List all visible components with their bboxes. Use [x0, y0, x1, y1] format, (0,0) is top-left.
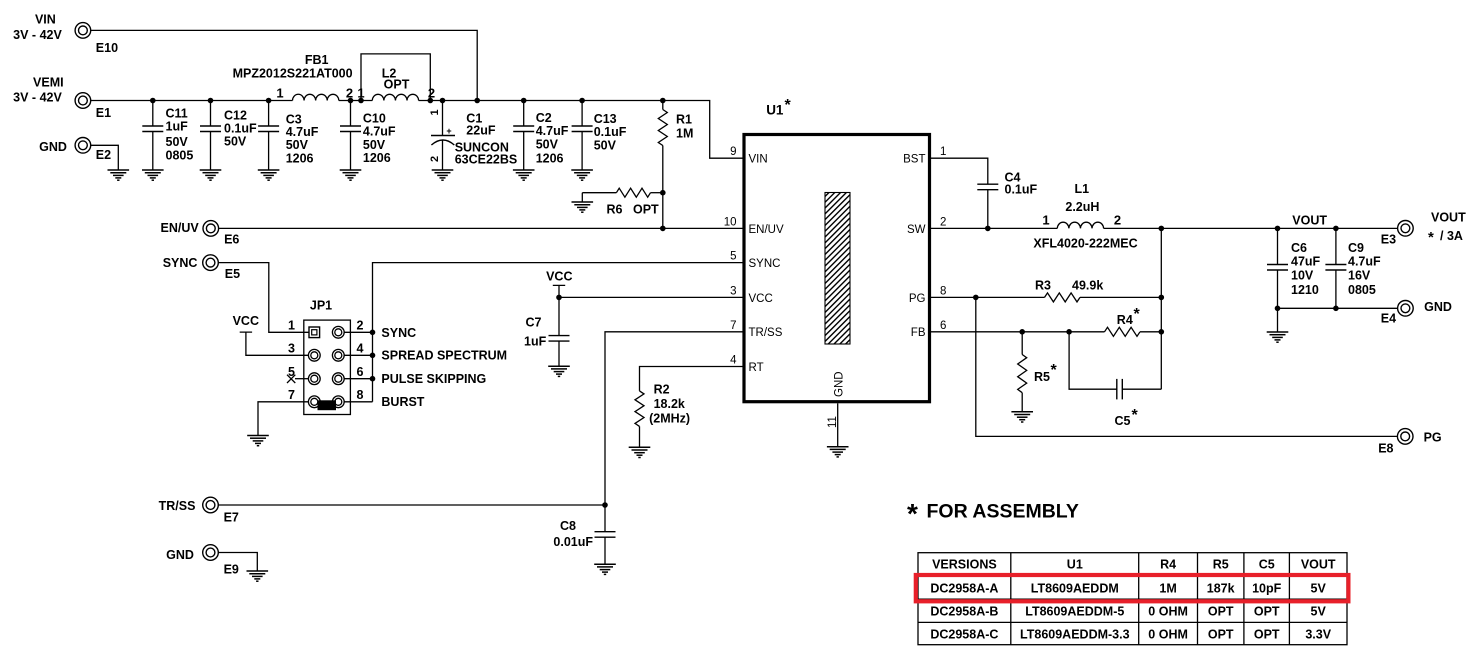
svg-text:C10: C10 — [363, 112, 386, 126]
svg-text:6: 6 — [357, 365, 364, 379]
wire PG to E8 — [976, 297, 1398, 436]
svg-text:7: 7 — [288, 388, 295, 402]
terminal E9 — [203, 545, 239, 577]
inductor L1 — [1033, 182, 1137, 250]
svg-text:BST: BST — [903, 154, 925, 166]
svg-text:FOR ASSEMBLY: FOR ASSEMBLY — [927, 501, 1079, 523]
wire PG row — [930, 296, 1162, 298]
svg-text:OPT: OPT — [1208, 605, 1234, 619]
node junction EN/UV at R1 — [660, 226, 666, 232]
svg-text:VOUT: VOUT — [1301, 558, 1336, 572]
svg-text:VOUT: VOUT — [1292, 214, 1327, 228]
svg-text:VIN: VIN — [749, 154, 768, 166]
svg-text:OPT: OPT — [384, 78, 410, 92]
svg-text:0.1uF: 0.1uF — [594, 125, 627, 139]
ground C8 — [594, 564, 616, 574]
svg-text:SPREAD SPECTRUM: SPREAD SPECTRUM — [381, 349, 507, 363]
pin 2 JP1 — [332, 326, 344, 338]
svg-text:SW: SW — [907, 224, 926, 236]
svg-text:1: 1 — [940, 146, 946, 158]
svg-text:TR/SS: TR/SS — [159, 499, 196, 513]
svg-text:4.7uF: 4.7uF — [286, 125, 319, 139]
svg-text:9: 9 — [730, 146, 736, 158]
svg-text:LT8609AEDDM-5: LT8609AEDDM-5 — [1025, 605, 1124, 619]
svg-text:4: 4 — [730, 355, 737, 367]
table assembly versions — [918, 553, 1347, 645]
svg-text:1: 1 — [276, 86, 283, 101]
pin 8 PG U1 — [909, 285, 947, 304]
svg-text:PULSE SKIPPING: PULSE SKIPPING — [381, 372, 486, 386]
pin 8 JP1 — [332, 396, 344, 408]
terminal E8 — [1378, 429, 1413, 456]
svg-text:1uF: 1uF — [524, 335, 547, 349]
svg-text:2: 2 — [1114, 212, 1121, 227]
terminal E6 — [203, 221, 239, 247]
wire SW rail — [930, 227, 1398, 229]
svg-text:0 OHM: 0 OHM — [1148, 605, 1188, 619]
ground U1 — [827, 447, 849, 457]
svg-text:R4: R4 — [1117, 313, 1133, 327]
terminal E5 — [203, 255, 240, 281]
node junction FB C5 — [1066, 329, 1072, 335]
resistor R6 — [582, 188, 663, 216]
svg-text:2.2uH: 2.2uH — [1065, 200, 1099, 214]
svg-text:E10: E10 — [96, 41, 118, 55]
svg-text:VERSIONS: VERSIONS — [932, 558, 997, 572]
node junction VOUT C6 — [1275, 226, 1281, 232]
svg-text:GND: GND — [1424, 300, 1452, 314]
node junction rail at C10 — [348, 98, 354, 104]
svg-text:63CE22BS: 63CE22BS — [455, 152, 518, 166]
terminal E1 — [75, 93, 111, 120]
table row DC2958A-C — [930, 628, 1331, 642]
svg-text:C5: C5 — [1259, 558, 1275, 572]
node junction C9 bottom — [1333, 306, 1339, 312]
node junction rail at C3 — [266, 98, 272, 104]
ground R2 — [629, 447, 651, 457]
node junction rail at C1 — [440, 98, 446, 104]
capacitor C7 — [524, 297, 570, 366]
wire JP1 pin2 stub — [344, 331, 373, 333]
ground E9 — [246, 571, 268, 581]
wire E5 to JP1 pin1 — [218, 263, 309, 333]
svg-text:OPT: OPT — [1254, 605, 1280, 619]
svg-text:C9: C9 — [1348, 241, 1364, 255]
resistor R5 — [1018, 332, 1058, 412]
wire JP1 pin7 to ground — [258, 402, 309, 436]
svg-text:VIN: VIN — [35, 13, 56, 27]
node junction rail at C13 — [579, 98, 585, 104]
terminal E10 — [75, 23, 118, 55]
pin 7 TR/SS U1 — [730, 320, 783, 339]
svg-text:*: * — [785, 97, 792, 114]
resistor R3 — [1035, 278, 1103, 302]
svg-text:E7: E7 — [224, 511, 239, 525]
op-amp U1 LT8609 box — [744, 97, 930, 402]
svg-text:SYNC: SYNC — [381, 326, 416, 340]
svg-text:VCC: VCC — [233, 314, 259, 328]
svg-text:E9: E9 — [224, 563, 239, 577]
ground R5 — [1011, 412, 1033, 422]
node VEMI label — [13, 76, 63, 105]
svg-text:50V: 50V — [594, 139, 617, 153]
terminal E7 — [203, 497, 239, 524]
resistor R2 — [635, 367, 744, 448]
svg-text:E6: E6 — [224, 232, 239, 246]
capacitor C5 — [1069, 332, 1161, 428]
ground R6 — [572, 202, 594, 212]
svg-text:C11: C11 — [166, 107, 188, 121]
svg-text:3.3V: 3.3V — [1305, 628, 1331, 642]
node VOUT output label — [1428, 211, 1466, 247]
no-connect X JP1 pin5 — [287, 375, 295, 383]
svg-text:OPT: OPT — [1254, 628, 1280, 642]
svg-text:(2MHz): (2MHz) — [649, 412, 690, 426]
table row DC2958A-A — [930, 582, 1326, 596]
svg-text:R5: R5 — [1213, 558, 1229, 572]
power VCC tap C7 — [546, 269, 572, 297]
svg-text:FB1: FB1 — [305, 53, 329, 67]
resistor R4 — [1105, 306, 1141, 336]
pin 4 RT U1 — [730, 355, 764, 374]
wire VIN E10 to rail — [91, 30, 478, 100]
svg-text:OPT: OPT — [1208, 628, 1234, 642]
node junction rail at C12 — [208, 98, 214, 104]
svg-text:/ 3A: / 3A — [1440, 229, 1463, 243]
svg-text:10: 10 — [724, 216, 737, 228]
svg-text:VEMI: VEMI — [33, 76, 64, 90]
svg-text:SYNC: SYNC — [163, 256, 198, 270]
capacitor C13 — [572, 101, 627, 171]
svg-text:R5: R5 — [1034, 370, 1050, 384]
pin 1 JP1 square pad — [309, 327, 320, 338]
wire L2 bypass — [361, 54, 430, 101]
svg-text:1206: 1206 — [536, 152, 564, 166]
wire JP1 pin6 stub — [344, 378, 373, 380]
wire C6 to ground — [1277, 308, 1279, 332]
capacitor C6 — [1267, 228, 1321, 308]
pin 3 VCC U1 — [730, 285, 773, 304]
node junction L2 pin2 — [428, 98, 434, 104]
ground C6 — [1267, 332, 1289, 342]
capacitor C9 — [1325, 228, 1381, 308]
node junction R1 R6 — [660, 190, 666, 196]
svg-text:0805: 0805 — [1348, 283, 1376, 297]
svg-text:TR/SS: TR/SS — [749, 327, 783, 339]
node junction VOUT C9 — [1333, 226, 1339, 232]
node junction bus pin2 — [370, 330, 376, 336]
svg-text:GND: GND — [166, 548, 194, 562]
svg-text:22uF: 22uF — [466, 123, 496, 137]
wire JP1 pin8 stub — [344, 401, 373, 403]
node junction L2 pin1 — [358, 98, 364, 104]
svg-text:3: 3 — [730, 285, 736, 297]
pin 3 JP1 — [308, 349, 320, 361]
svg-text:R4: R4 — [1160, 558, 1176, 572]
svg-text:0.1uF: 0.1uF — [1005, 183, 1038, 197]
ground C1 — [432, 170, 454, 180]
capacitor C11 — [142, 101, 193, 171]
svg-text:5V: 5V — [1311, 582, 1327, 596]
shunt jumper JP1 pins 7-8 — [318, 400, 337, 410]
terminal E3 — [1381, 221, 1413, 247]
svg-text:7: 7 — [730, 320, 736, 332]
connector JP1 — [304, 299, 351, 415]
svg-text:10V: 10V — [1291, 269, 1314, 283]
svg-text:4.7uF: 4.7uF — [363, 125, 396, 139]
highlight red box row A — [916, 575, 1349, 601]
svg-text:4.7uF: 4.7uF — [536, 124, 569, 138]
svg-text:E3: E3 — [1381, 232, 1396, 246]
svg-text:3V - 42V: 3V - 42V — [13, 90, 62, 104]
svg-text:1206: 1206 — [286, 152, 314, 166]
node junction PG branch — [973, 295, 979, 301]
terminal E2 — [75, 138, 111, 162]
svg-text:18.2k: 18.2k — [654, 397, 685, 411]
svg-text:1: 1 — [288, 319, 295, 333]
node junction VCC C7 — [556, 295, 562, 301]
svg-text:EN/UV: EN/UV — [749, 224, 784, 236]
ground C3 — [258, 170, 280, 180]
wire EN/UV net — [219, 227, 744, 229]
svg-text:49.9k: 49.9k — [1072, 278, 1103, 292]
node junction VIN joins rail — [474, 98, 480, 104]
wire BST to C4 — [930, 158, 988, 184]
svg-text:DC2958A-A: DC2958A-A — [930, 582, 998, 596]
svg-text:GND: GND — [834, 371, 846, 397]
svg-text:PG: PG — [1424, 431, 1442, 445]
svg-text:R3: R3 — [1035, 278, 1051, 292]
svg-text:50V: 50V — [363, 138, 386, 152]
svg-text:1206: 1206 — [363, 151, 391, 165]
svg-text:GND: GND — [39, 140, 67, 154]
pin 9 VIN U1 — [730, 146, 768, 165]
svg-text:0.1uF: 0.1uF — [224, 121, 257, 135]
svg-text:1: 1 — [429, 109, 441, 115]
wire VCC net to U1 — [559, 296, 744, 298]
svg-text:FB: FB — [911, 327, 926, 339]
svg-text:LT8609AEDDM-3.3: LT8609AEDDM-3.3 — [1020, 628, 1130, 642]
ground JP1 pin7 — [247, 436, 269, 446]
svg-text:U1: U1 — [1067, 558, 1083, 572]
svg-text:LT8609AEDDM: LT8609AEDDM — [1031, 582, 1119, 596]
wire GND rail to E4 — [1278, 307, 1398, 309]
pin 11 GND U1 — [827, 371, 846, 446]
node junction L1 out — [1159, 226, 1165, 232]
svg-text:47uF: 47uF — [1291, 254, 1321, 268]
node junction rail at R1 — [660, 98, 666, 104]
svg-text:R6: R6 — [607, 203, 623, 217]
svg-text:8: 8 — [357, 388, 364, 402]
svg-text:PG: PG — [909, 293, 926, 305]
svg-text:BURST: BURST — [381, 395, 424, 409]
svg-text:OPT: OPT — [633, 203, 659, 217]
node junction TR/SS C8 — [602, 502, 608, 508]
svg-text:DC2958A-B: DC2958A-B — [930, 605, 998, 619]
svg-text:VOUT: VOUT — [1431, 211, 1466, 225]
ground C2 — [513, 170, 535, 180]
capacitor C8 — [553, 505, 615, 564]
svg-text:JP1: JP1 — [310, 299, 332, 313]
capacitor C1 polarized — [429, 101, 517, 171]
node VIN label — [13, 13, 62, 42]
svg-text:3: 3 — [288, 342, 295, 356]
table row DC2958A-B — [930, 605, 1326, 619]
pin 4 JP1 — [332, 349, 344, 361]
note FOR ASSEMBLY — [907, 498, 1079, 529]
pin 1 BST U1 — [903, 146, 946, 165]
wire FB row — [930, 331, 1162, 333]
svg-text:1uF: 1uF — [166, 120, 189, 134]
svg-text:*: * — [1132, 407, 1139, 424]
terminal E4 — [1381, 301, 1413, 326]
svg-text:*: * — [1134, 306, 1141, 323]
pin 2 SW U1 — [907, 216, 946, 235]
node junction C6 bottom — [1275, 306, 1281, 312]
svg-text:RT: RT — [749, 362, 764, 374]
ground C12 — [200, 170, 222, 180]
svg-text:VCC: VCC — [546, 269, 572, 283]
svg-text:E4: E4 — [1381, 312, 1396, 326]
pin 10 EN/UV U1 — [724, 216, 784, 235]
wire pin5 no-connect — [295, 378, 309, 380]
ground C7 — [548, 366, 570, 376]
ground E2 — [108, 170, 130, 180]
pin 6 JP1 — [332, 373, 344, 385]
ground C11 — [142, 170, 164, 180]
svg-text:EN/UV: EN/UV — [161, 221, 200, 235]
wire VEMI rail — [91, 101, 744, 159]
pin 5 SYNC U1 — [730, 251, 780, 270]
svg-text:0 OHM: 0 OHM — [1148, 628, 1188, 642]
node junction E1 rail at C11 — [150, 98, 156, 104]
wire E2 to ground — [91, 145, 119, 170]
svg-text:E8: E8 — [1378, 442, 1393, 456]
svg-text:R1: R1 — [676, 113, 692, 127]
svg-text:U1: U1 — [766, 103, 784, 118]
node junction R3 right — [1159, 295, 1165, 301]
node junction bus pin6 — [370, 376, 376, 382]
ferrite bead FB1 — [233, 53, 353, 101]
svg-text:SYNC: SYNC — [749, 258, 781, 270]
svg-text:1M: 1M — [1159, 582, 1176, 596]
wire TR/SS net — [218, 332, 744, 505]
svg-text:E5: E5 — [225, 267, 240, 281]
capacitor C2 — [513, 101, 569, 171]
svg-text:50V: 50V — [286, 138, 309, 152]
pin 5 JP1 — [308, 373, 320, 385]
node junction C4 SW — [985, 226, 991, 232]
svg-text:2: 2 — [357, 319, 364, 333]
svg-text:*: * — [1428, 229, 1434, 246]
svg-text:1: 1 — [1042, 212, 1049, 227]
svg-text:2: 2 — [940, 216, 946, 228]
svg-text:XFL4020-222MEC: XFL4020-222MEC — [1033, 236, 1137, 250]
node junction bus pin4 — [370, 353, 376, 359]
svg-text:C5: C5 — [1115, 414, 1131, 428]
power VCC tap JP1 — [233, 314, 309, 355]
svg-text:0805: 0805 — [166, 149, 194, 163]
capacitor C10 — [340, 101, 396, 171]
svg-text:50V: 50V — [166, 135, 189, 149]
node junction FB R4 right — [1159, 329, 1165, 335]
svg-text:*: * — [907, 498, 918, 529]
wire SYNC bus to U1 — [373, 263, 745, 402]
inductor L2 — [372, 67, 418, 101]
table header row — [932, 558, 1336, 572]
resistor R1 — [658, 101, 693, 229]
pin 7 JP1 — [308, 396, 320, 408]
node junction FB R5 — [1019, 329, 1025, 335]
svg-text:E1: E1 — [96, 106, 111, 120]
svg-text:187k: 187k — [1207, 582, 1235, 596]
capacitor C4 — [977, 170, 1037, 228]
svg-text:0.01uF: 0.01uF — [553, 535, 593, 549]
svg-text:DC2958A-C: DC2958A-C — [930, 628, 998, 642]
svg-text:10pF: 10pF — [1252, 582, 1282, 596]
svg-text:C6: C6 — [1291, 241, 1307, 255]
svg-text:L1: L1 — [1075, 182, 1090, 196]
wire feedback bus vertical — [1160, 228, 1162, 389]
svg-text:5: 5 — [730, 251, 736, 263]
svg-text:5V: 5V — [1311, 605, 1327, 619]
node junction rail at C2 — [521, 98, 527, 104]
svg-text:1M: 1M — [676, 126, 693, 140]
svg-text:1210: 1210 — [1291, 283, 1319, 297]
svg-text:C7: C7 — [526, 316, 542, 330]
svg-text:R2: R2 — [654, 383, 670, 397]
svg-text:8: 8 — [940, 285, 946, 297]
capacitor C12 — [200, 101, 257, 171]
svg-text:2: 2 — [429, 156, 441, 162]
svg-text:50V: 50V — [224, 135, 247, 149]
svg-text:16V: 16V — [1348, 269, 1371, 283]
svg-text:50V: 50V — [536, 138, 559, 152]
svg-text:+: + — [446, 126, 451, 136]
ground C10 — [340, 170, 362, 180]
svg-text:E2: E2 — [96, 148, 111, 162]
svg-text:6: 6 — [940, 320, 946, 332]
ground C13 — [571, 170, 593, 180]
svg-text:4: 4 — [357, 342, 364, 356]
svg-text:C8: C8 — [560, 519, 576, 533]
U1 exposed pad hatch — [825, 193, 850, 345]
svg-text:11: 11 — [827, 416, 839, 428]
svg-text:*: * — [1051, 362, 1058, 379]
wire JP1 pin4 stub — [344, 354, 373, 356]
svg-text:VCC: VCC — [749, 293, 773, 305]
wire E9 to ground — [218, 553, 257, 572]
capacitor C3 — [258, 101, 319, 171]
svg-text:3V - 42V: 3V - 42V — [13, 28, 62, 42]
svg-text:4.7uF: 4.7uF — [1348, 254, 1381, 268]
pin 6 FB U1 — [911, 320, 947, 339]
svg-text:MPZ2012S221AT000: MPZ2012S221AT000 — [233, 67, 353, 81]
